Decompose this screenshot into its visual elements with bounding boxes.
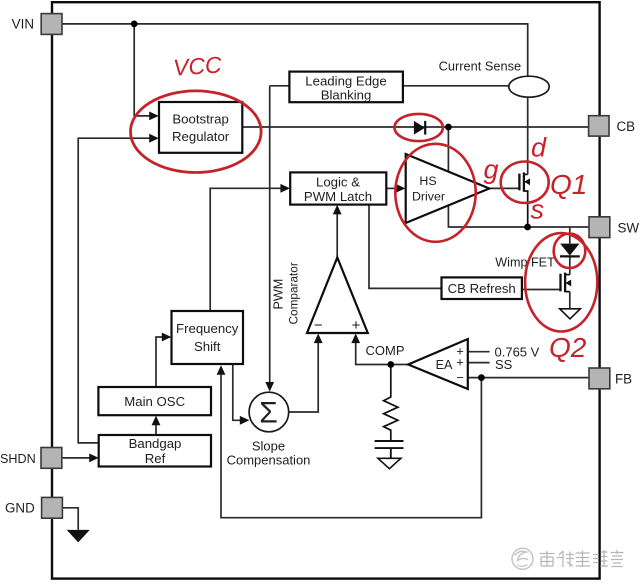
wire Q2 source to ground [569,292,571,309]
diode wimp FET body diode [560,244,580,257]
capacitor Cc at COMP [375,441,404,458]
node FB junction [478,374,485,381]
op-amp PWM Comparator triangle [307,258,368,335]
svg-text:EA: EA [436,358,453,372]
node SW junction [524,224,531,231]
wire VIN to bootstrap input 1 [134,24,149,116]
svg-text:Bandgap: Bandgap [129,436,182,451]
watermark text placeholder glyphs [540,550,624,567]
wire SW rail down to wimp diode [569,227,571,244]
op-amp EA error amplifier [408,339,468,389]
node COMP junction [387,361,394,368]
svg-text:Frequency: Frequency [176,321,239,336]
svg-text:Slope: Slope [252,438,285,453]
svg-text:+: + [456,355,464,370]
wire leading edge blanking to current sense [403,85,509,87]
svg-text:CB Refresh: CB Refresh [448,281,516,296]
svg-text:s: s [531,195,545,225]
label Slope Compensation [227,438,311,467]
label PWM Comparator (vertical) [272,262,301,324]
wire PWM comparator out to logic latch [336,214,338,258]
pin SW [589,217,639,238]
wire bandgap to main osc [155,425,157,435]
box U-bootstrap Bootstrap Regulator [159,102,242,153]
ground filled arrow at GND pin [67,530,90,543]
wire frequency shift to logic latch input [210,188,281,311]
svg-text:Bootstrap: Bootstrap [172,111,228,126]
transistor Q1 NMOS symbol [519,172,530,227]
svg-text:Q2: Q2 [549,332,587,363]
svg-text:FB: FB [615,372,632,387]
svg-text:Compensation: Compensation [227,452,311,467]
pin CB [589,116,636,136]
wire wimp diode to Q2 drain [569,257,571,274]
wire current sense to Q1 drain [527,97,529,175]
svg-text:SS: SS [495,357,513,372]
svg-text:d: d [531,133,547,163]
wire Q1 source to SW pin [528,226,589,228]
current sense ellipse [509,76,549,97]
svg-text:Wimp FET: Wimp FET [495,256,555,270]
annotation red circle around wimp diode [554,234,586,268]
pin GND [5,497,62,518]
wire EA ref input 0.765V [468,351,490,353]
svg-text:+: + [352,317,361,334]
svg-text:COMP: COMP [366,343,405,358]
box Frequency Shift [172,311,244,364]
pin SHDN [0,448,62,469]
annotation red circle around Q1 [501,162,549,203]
svg-text:Regulator: Regulator [172,129,230,144]
svg-text:−: − [314,317,323,334]
wire EA SS input [468,362,490,364]
svg-text:Ref: Ref [145,451,166,466]
svg-text:Blanking: Blanking [321,88,372,103]
op-amp HS Driver [406,154,490,223]
annotation red ellipse around HS driver [395,144,475,242]
svg-text:Σ: Σ [259,397,278,430]
svg-text:g: g [484,155,499,185]
node CB junction [445,124,452,131]
svg-text:Leading Edge: Leading Edge [305,73,386,88]
annotation red ellipse VCC around bootstrap [131,91,262,173]
box Logic and PWM Latch [290,172,386,204]
box CB Refresh [442,277,522,299]
svg-text:Driver: Driver [412,190,445,204]
wire logic latch to HS driver [386,187,396,189]
annotation red ellipse around Q2 [525,233,597,331]
svg-text:−: − [456,370,464,385]
wire bandgap to bootstrap input 2 [78,138,149,443]
svg-text:GND: GND [5,501,35,516]
svg-text:Shift: Shift [194,339,221,354]
svg-text:Current Sense: Current Sense [439,59,522,74]
wire FB pin to EA minus input [468,377,589,379]
wire bootstrap output to CB [242,126,588,128]
ground open triangle at COMP RC [378,458,401,468]
wire VIN rail to current sense [62,24,528,77]
svg-text:VIN: VIN [12,17,34,32]
wire CB refresh output to Q2 gate [522,289,561,291]
svg-text:Main OSC: Main OSC [124,394,185,409]
wire down to sigma top [269,86,271,383]
box Leading Edge Blanking [289,72,403,103]
diode D-boost [414,121,425,135]
wire SHDN to bandgap [62,457,90,459]
wire CB node down to SW rail (passes behind HS driver) [448,127,527,227]
wire GND pin stub [62,508,78,530]
ground open triangle at Q2 source [560,309,581,319]
transistor Q2 wimp FET NMOS symbol [561,273,572,293]
annotation red ellipse around boost diode [395,114,443,141]
wire main osc to frequency shift [156,337,162,387]
wire sigma to PWM comparator minus [289,343,319,413]
wire EA out to COMP node to PWM comparator plus [356,343,409,365]
svg-text:Logic &: Logic & [316,174,360,189]
node VIN junction [131,21,138,28]
svg-text:Q1: Q1 [550,169,587,200]
wire leading edge blanking input from slope net [270,85,290,87]
summer sigma Slope Compensation [249,392,289,432]
box Bandgap Ref [99,435,211,467]
wire logic latch to CB refresh [369,205,441,289]
svg-text:Comparator: Comparator [287,262,301,324]
svg-text:PWM: PWM [272,279,286,310]
svg-text:VCC: VCC [172,51,223,80]
svg-text:HS: HS [419,174,436,188]
svg-text:PWM Latch: PWM Latch [304,189,372,204]
wire frequency shift to sigma [233,364,240,420]
wire HS driver to Q1 gate [489,187,519,189]
svg-text:SHDN: SHDN [0,452,36,466]
svg-text:SW: SW [618,220,640,235]
watermark logo circle [512,548,533,569]
pin VIN [12,14,62,35]
box Main OSC [98,387,211,415]
pin FB [589,368,632,389]
resistor Rc at COMP [384,365,398,441]
svg-text:CB: CB [617,119,636,134]
wire FB loop to frequency shift [221,375,481,518]
